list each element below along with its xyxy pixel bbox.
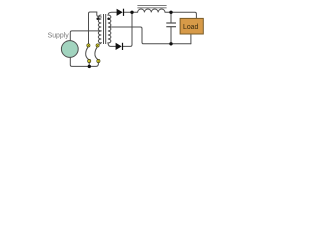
wire primary top lead <box>97 12 102 17</box>
wire primary top loop <box>89 12 97 44</box>
wire supply bottom to rail <box>70 57 98 66</box>
junction dot cap bottom <box>169 42 172 45</box>
diode D2 <box>116 43 123 50</box>
wire load bottom lead <box>190 34 192 44</box>
switch terminal lower-right <box>97 59 100 62</box>
wire D1 cathode to L <box>124 11 138 13</box>
capacitor C1 plates <box>166 23 176 27</box>
wire L to cap junction to load corner <box>165 12 196 18</box>
supply source circle <box>61 41 78 58</box>
wire secondary bottom lead to D2 <box>108 43 116 47</box>
diode D1 <box>117 9 124 16</box>
junction dot D1/D2 output <box>130 11 133 14</box>
load box <box>180 18 203 34</box>
inductor L1 <box>137 6 166 13</box>
wire D2 output riser <box>123 12 132 46</box>
svg-text:Supply: Supply <box>48 32 70 39</box>
transformer T1 core <box>104 14 106 44</box>
wire secondary top lead to D1 <box>108 12 117 15</box>
junction dot cap top <box>169 11 172 14</box>
inductor core lines <box>137 6 166 8</box>
wire supply top riser <box>70 31 101 41</box>
wire capacitor bottom lead <box>170 27 172 44</box>
switch terminal lower-left <box>88 59 91 62</box>
wire primary bottom lead <box>98 43 102 45</box>
polarity dot primary <box>96 18 99 21</box>
wire secondary center tap to bottom rail <box>110 27 190 44</box>
switch terminal upper-right <box>96 44 99 47</box>
wire capacitor top lead <box>170 12 172 22</box>
transformer primary winding <box>98 15 101 43</box>
switch blade right <box>95 47 98 59</box>
polarity dot secondary <box>107 18 110 21</box>
switch terminal upper-left <box>87 44 90 47</box>
svg-text:Load: Load <box>183 24 198 31</box>
transformer secondary winding <box>108 15 111 43</box>
junction dot bottom-left rail <box>88 65 91 68</box>
wire lower-left switch stub <box>88 63 90 67</box>
switch blade left <box>86 47 89 59</box>
